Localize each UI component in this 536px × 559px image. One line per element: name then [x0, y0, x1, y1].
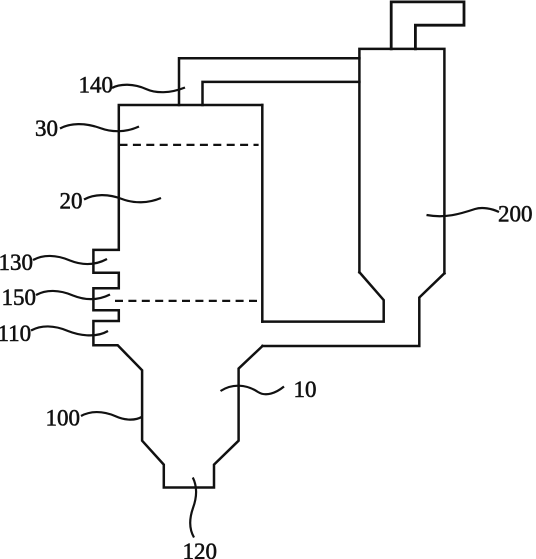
riser right edge: [261, 105, 264, 322]
leader 150: [36, 291, 110, 299]
leader 200: [427, 208, 500, 216]
return leg channel lower boundary: [263, 273, 445, 346]
svg-text:110: 110: [0, 321, 31, 346]
svg-text:200: 200: [498, 202, 533, 227]
leader 120: [190, 478, 196, 538]
duct 140 outer wall: [179, 58, 359, 105]
leader 110: [31, 326, 108, 335]
gas outlet stack on cyclone: [391, 2, 464, 49]
leader 30: [60, 124, 139, 131]
leader 130: [33, 256, 107, 264]
leader 140: [112, 85, 185, 92]
svg-text:150: 150: [2, 285, 37, 310]
leader 100: [81, 412, 143, 420]
svg-text:100: 100: [46, 405, 81, 430]
riser vessel 100 outline with nozzle teeth and ash funnel: [93, 105, 262, 488]
svg-text:130: 130: [0, 250, 33, 275]
leader 10: [221, 386, 285, 395]
svg-text:20: 20: [60, 189, 83, 214]
svg-text:30: 30: [35, 116, 58, 141]
return leg channel upper boundary: [262, 272, 383, 321]
leader 20: [84, 195, 161, 202]
svg-text:140: 140: [79, 73, 114, 98]
upper dashed level line: [120, 144, 259, 146]
lower dashed level line: [115, 300, 262, 302]
cyclone 200 body: [359, 49, 444, 273]
duct 140 inner wall: [203, 82, 360, 105]
svg-text:10: 10: [294, 377, 317, 402]
svg-text:120: 120: [183, 539, 218, 559]
